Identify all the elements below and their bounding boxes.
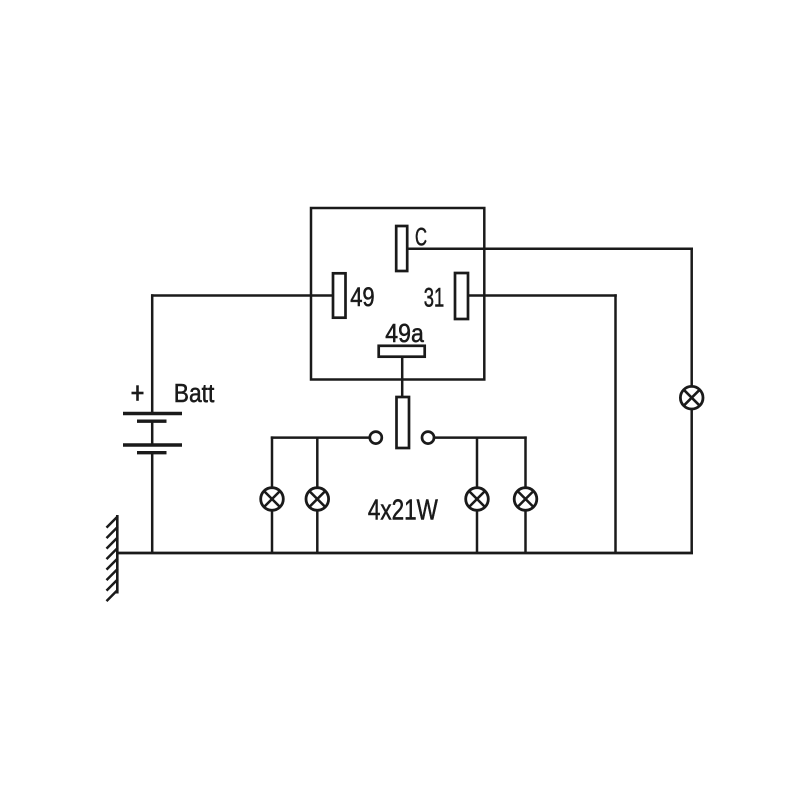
svg-text:C: C [415, 224, 427, 252]
lamp L2 [306, 488, 329, 511]
lamp L1 [261, 488, 284, 511]
wire battery negative to ground bus [151, 453, 154, 554]
wire lamp L3 drop (vertical) [476, 438, 479, 489]
wire 49a to switch (vertical) [401, 357, 404, 398]
svg-text:49a: 49a [385, 318, 424, 348]
wire lamp L3 to ground bus [476, 510, 479, 553]
svg-text:49: 49 [350, 282, 375, 312]
wire C to indicator lamp (horizontal) [407, 247, 693, 250]
wire lamp L1 drop (vertical) [271, 436, 274, 488]
battery label Batt [174, 380, 215, 408]
ground bus wire (bottom horizontal) [117, 552, 693, 555]
pin label C [415, 224, 427, 252]
svg-text:4x21W: 4x21W [368, 495, 438, 527]
pin label 49 [350, 282, 375, 312]
pin label 49a [385, 318, 424, 348]
svg-text:Batt: Batt [174, 380, 215, 408]
wire indicator lamp drop (vertical from C wire to lamp L5) [690, 248, 693, 388]
pin C terminal [396, 226, 407, 271]
switch S1 movable bar [397, 397, 410, 448]
pin label 31 [424, 283, 445, 313]
wire lamp L1 to ground bus [271, 510, 274, 553]
wire 49 to battery (horizontal) [151, 294, 333, 297]
relay box K1 (flasher unit outline) [311, 208, 484, 380]
wire lamp L2 drop (vertical) [316, 438, 319, 489]
switch contact node left [370, 432, 382, 444]
wire lamp L5 to ground bus [690, 409, 693, 555]
pin 31 terminal [455, 273, 468, 319]
pin 49 terminal [333, 273, 346, 317]
ground (chassis) symbol [107, 515, 118, 601]
pin 49a terminal [379, 346, 425, 357]
lamp L5 indicator [680, 386, 703, 409]
wire lamp L4 drop (vertical) [524, 436, 527, 488]
wire right contact to right lamp pair (horizontal) [434, 436, 527, 439]
wire 31 to ground bus (horizontal) [468, 294, 617, 297]
svg-text:31: 31 [424, 283, 445, 313]
lamp L4 [514, 488, 537, 511]
value label 4x21W [368, 495, 438, 527]
wire 31 down run (vertical to ground bus) [614, 294, 617, 553]
lamp L3 [466, 488, 489, 511]
battery BT1 [123, 414, 182, 453]
switch contact node right [422, 432, 434, 444]
wire battery positive lead (vertical) [151, 294, 154, 413]
wire lamp L2 to ground bus [316, 510, 319, 553]
wire lamp L4 to ground bus [524, 510, 527, 553]
wire left contact to left lamp pair (horizontal) [271, 436, 370, 439]
battery polarity label + [132, 385, 144, 401]
